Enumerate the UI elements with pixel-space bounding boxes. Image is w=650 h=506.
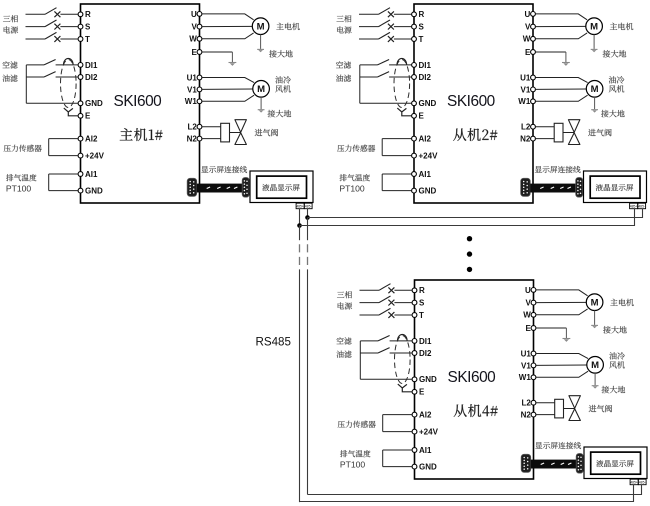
ground symbol fan motor (unit2) (591, 110, 598, 113)
wire pressure sensor bracket vertical (unit1) (48, 139, 50, 156)
wire L2 to valve coil (unit3) (536, 402, 555, 404)
svg-text:T: T (419, 35, 424, 44)
wire DI1 left segment (unit2) (360, 64, 378, 66)
svg-text:V: V (191, 23, 197, 32)
terminal pin GND (left, unit1) (78, 188, 83, 193)
valve body bowtie (unit3) (569, 396, 581, 421)
svg-text:U: U (525, 286, 531, 295)
wire PT100 to AI1 (unit3) (383, 449, 412, 451)
wire hump over DI1 (unit2) (397, 58, 407, 64)
label 接大地 earth (main motor, unit1) (269, 50, 293, 57)
wire RS485 stub from unit1 485+ terminal (299, 209, 301, 226)
wire V to main motor (unit3) (536, 301, 586, 303)
label 风机 fan (unit2) (609, 85, 624, 92)
svg-text:GND: GND (419, 375, 437, 384)
svg-text:AI1: AI1 (419, 446, 432, 455)
motor M1 main motor circle (unit2) (586, 18, 603, 35)
label 三相 three-phase (unit3) (337, 291, 352, 298)
switch blade DI2 (unit2) (378, 72, 390, 77)
label 排气温度 exhaust temperature (unit2) (340, 174, 370, 181)
wire DI2 left segment (unit1) (26, 76, 44, 78)
terminal pin V (right, unit3) (531, 300, 536, 305)
terminal pin S (left, unit3) (412, 300, 417, 305)
wire phase T to pin (unit2) (394, 38, 412, 40)
terminal pin GND (left, unit3) (412, 464, 417, 469)
wire RS485 stub to unit3 485- terminal (641, 485, 643, 495)
terminal pin +24V (left, unit1) (78, 153, 83, 158)
terminal pin L2 (right, unit1) (197, 124, 202, 129)
terminal pin +24V (left, unit3) (412, 429, 417, 434)
breaker contact X mark T (unit2) (388, 36, 394, 42)
wire phase R to pin (unit2) (394, 13, 412, 15)
label 主电机 main motor (unit3) (610, 299, 633, 306)
terminal pin E (right, unit2) (531, 50, 536, 55)
wire DI common return to GND pin (unit3) (360, 378, 412, 380)
terminal block 485+ (unit1) (296, 203, 304, 209)
svg-text:GND: GND (85, 187, 103, 196)
shield loop ellipse around DI wires (unit3) (395, 336, 411, 384)
wire RS485 stub to unit2 485- terminal (642, 209, 644, 218)
terminal pin T (left, unit1) (78, 37, 83, 42)
terminal pin W (right, unit3) (531, 312, 536, 317)
switch blade DI1 (unit3) (378, 336, 390, 341)
terminal pin N2 (right, unit3) (531, 412, 536, 417)
svg-text:U1: U1 (521, 349, 532, 358)
wire U1 to fan motor (unit3) (536, 354, 588, 359)
terminal pin GND (left, unit1) (78, 101, 83, 106)
wire hump over DI1 (unit3) (398, 334, 408, 340)
svg-text:SKI600: SKI600 (448, 369, 496, 386)
wire PT100 bracket vertical (unit3) (382, 450, 384, 467)
svg-text:GND: GND (419, 99, 437, 108)
wire U to main motor (unit2) (535, 14, 587, 20)
wire W1 to fan motor (unit2) (535, 95, 587, 101)
label unit name 主机1# (120, 128, 163, 141)
wire W to main motor (unit1) (202, 33, 254, 39)
terminal pin V1 (right, unit2) (531, 87, 536, 92)
label 压力传感器 pressure sensor (unit1) (4, 145, 42, 152)
terminal pin U (right, unit1) (197, 12, 202, 17)
display ribbon cable (unit3) (531, 460, 577, 469)
wire PT100 bracket vertical (unit2) (381, 174, 383, 191)
svg-text:485+: 485+ (296, 204, 304, 208)
label 油滤 oil filter (unit2) (336, 75, 351, 82)
label 油冷 oil cooling (unit1) (275, 76, 291, 83)
terminal pin T (left, unit2) (412, 37, 417, 42)
label 电源 power supply (unit3) (338, 302, 352, 309)
svg-text:T: T (85, 35, 90, 44)
wire DI1 to pin (unit3) (390, 340, 413, 342)
terminal pin R (left, unit3) (412, 288, 417, 293)
wire main motor to ground (unit2) (593, 35, 595, 49)
label 主电机 main motor (unit1) (276, 23, 299, 30)
svg-text:485+: 485+ (630, 204, 638, 208)
wire E output horizontal (unit3) (536, 327, 567, 329)
terminal pin V1 (right, unit1) (197, 87, 202, 92)
wire pressure sensor to +24V (unit3) (383, 431, 412, 433)
svg-text:S: S (85, 23, 91, 32)
wire phase T supply segment (unit1) (26, 38, 46, 40)
svg-text:485-: 485- (305, 204, 312, 208)
svg-text:R: R (85, 10, 91, 19)
wire main motor to ground (unit3) (594, 311, 596, 325)
valve body bowtie (unit2) (568, 120, 580, 145)
terminal pin DI2 (left, unit1) (78, 75, 83, 80)
LCD display inner screen (unit2) (590, 176, 640, 198)
ground symbol main motor (unit3) (591, 325, 598, 328)
label 空滤 air filter (unit3) (337, 337, 352, 344)
wire PT100 to GND (unit2) (382, 190, 411, 192)
wire main motor to ground (unit1) (260, 35, 262, 49)
breaker contact X mark S (unit1) (54, 24, 60, 30)
label 显示屏连接线 display cable (unit1) (201, 166, 247, 173)
junction dot node B (unit1 485-) (305, 215, 310, 220)
ellipsis dot 1 (more units) (467, 236, 472, 241)
label unit name 从机4# (454, 404, 498, 417)
wire PT100 to GND (unit3) (383, 466, 412, 468)
svg-text:U: U (191, 10, 197, 19)
terminal pin E (left, unit3) (412, 389, 417, 394)
ground symbol fan motor (unit3) (592, 386, 599, 389)
shield loop ellipse around DI wires (unit1) (61, 60, 77, 108)
wire W1 to fan motor (unit1) (202, 95, 254, 101)
display ribbon cable (unit2) (530, 184, 576, 193)
terminal pin W (right, unit1) (197, 36, 202, 41)
breaker switch blade R (unit1) (45, 8, 57, 15)
switch blade DI2 (unit1) (44, 72, 56, 77)
wire fan motor to ground (unit3) (594, 373, 596, 385)
svg-text:AI2: AI2 (419, 135, 432, 144)
svg-text:E: E (191, 48, 197, 57)
label unit name 从机2# (453, 128, 497, 141)
switch blade DI1 (unit2) (378, 60, 390, 65)
label 液晶显示屏 LCD screen (unit1) (262, 184, 299, 191)
wire RS485 vertical drop A dashed break (299, 244, 301, 265)
wire phase S supply segment (unit3) (360, 302, 380, 304)
svg-text:485-: 485- (639, 480, 646, 484)
terminal pin +24V (left, unit2) (412, 153, 417, 158)
wire RS485 stub to unit2 485+ terminal (634, 209, 636, 226)
terminal pin V (right, unit1) (197, 24, 202, 29)
LCD display outer box (unit2) (584, 171, 647, 203)
svg-text:S: S (419, 23, 425, 32)
terminal pin N2 (right, unit1) (197, 136, 202, 141)
svg-text:+24V: +24V (85, 152, 105, 161)
switch blade DI2 (unit3) (378, 348, 390, 353)
ellipsis dot 2 (more units) (467, 251, 472, 256)
wire DI2 to pin (unit1) (56, 76, 79, 78)
connector DB9 on drive (unit1) (187, 178, 197, 196)
connector DB9 on display (unit1) (242, 178, 249, 198)
svg-text:RS485: RS485 (256, 336, 291, 349)
wire phase R to pin (unit3) (394, 289, 412, 291)
terminal pin AI1 (left, unit1) (78, 172, 83, 177)
label 压力传感器 pressure sensor (unit3) (338, 421, 376, 428)
svg-text:GND: GND (419, 187, 437, 196)
terminal pin GND (left, unit3) (412, 377, 417, 382)
breaker contact X mark R (unit2) (388, 11, 394, 17)
svg-text:DI2: DI2 (419, 73, 432, 82)
svg-text:M: M (257, 84, 265, 95)
wire coil to valve body (unit2) (563, 132, 574, 134)
wire DI1 left segment (unit1) (26, 64, 44, 66)
wire pressure sensor bracket vertical (unit3) (382, 415, 384, 432)
ground symbol E output (unit2) (562, 63, 570, 66)
terminal pin S (left, unit2) (412, 24, 417, 29)
terminal pin AI2 (left, unit3) (412, 412, 417, 417)
motor M2 oil cooling fan circle (unit2) (586, 81, 603, 98)
wire V1 to fan motor (unit3) (536, 364, 587, 366)
breaker switch blade S (unit3) (379, 296, 391, 303)
breaker contact X mark S (unit2) (388, 24, 394, 30)
label 油滤 oil filter (unit3) (336, 351, 351, 358)
terminal pin U (right, unit3) (531, 288, 536, 293)
svg-text:GND: GND (419, 463, 437, 472)
terminal pin AI1 (left, unit2) (412, 172, 417, 177)
label 空滤 air filter (unit2) (336, 61, 351, 68)
wire W1 to fan motor (unit3) (536, 371, 588, 377)
label 液晶显示屏 LCD screen (unit3) (596, 460, 633, 467)
label 进气阀 intake valve (unit3) (589, 405, 612, 412)
wire DI2 to pin (unit2) (389, 76, 412, 78)
wire DI2 left segment (unit3) (360, 352, 378, 354)
svg-text:V: V (525, 299, 531, 308)
label 油冷 oil cooling (unit3) (609, 352, 625, 359)
ground symbol main motor (unit2) (591, 49, 598, 52)
svg-text:DI1: DI1 (85, 61, 98, 70)
breaker contact X mark R (unit1) (54, 11, 60, 17)
label 三相 three-phase (unit2) (337, 15, 352, 22)
terminal pin S (left, unit1) (78, 24, 83, 29)
terminal pin AI1 (left, unit3) (412, 448, 417, 453)
connector DB9 on drive (unit2) (521, 178, 531, 196)
wire E output horizontal (unit2) (535, 51, 566, 53)
label 接大地 earth (fan, unit3) (602, 386, 626, 393)
wire phase R to pin (unit1) (60, 13, 78, 15)
wire RS485 bus B to unit2 (lower) (300, 225, 635, 227)
svg-text:GND: GND (85, 99, 103, 108)
terminal pin DI1 (left, unit2) (412, 63, 417, 68)
wire U to main motor (unit3) (536, 290, 588, 296)
wire U1 to fan motor (unit2) (535, 78, 587, 83)
svg-text:S: S (419, 299, 425, 308)
terminal pin U1 (right, unit2) (531, 75, 536, 80)
wire coil to valve body (unit1) (230, 132, 241, 134)
terminal pin U (right, unit2) (531, 12, 536, 17)
terminal pin AI2 (left, unit2) (412, 136, 417, 141)
wire PT100 to AI1 (unit1) (49, 173, 78, 175)
svg-text:R: R (419, 286, 425, 295)
svg-text:U1: U1 (520, 73, 531, 82)
label 排气温度 exhaust temperature (unit1) (6, 174, 36, 181)
label 显示屏连接线 display cable (unit2) (535, 166, 581, 173)
valve coil box (unit2) (554, 123, 563, 142)
LCD display inner screen (unit1) (257, 176, 307, 198)
label 排气温度 exhaust temperature (unit3) (340, 450, 370, 457)
terminal pin DI1 (left, unit3) (412, 339, 417, 344)
shield drain Y connector (unit2) (397, 108, 411, 116)
wire W to main motor (unit3) (536, 309, 588, 315)
wire RS485 vertical drop B solid upper (307, 218, 309, 241)
wire phase S supply segment (unit2) (359, 26, 379, 28)
svg-text:W1: W1 (519, 373, 532, 382)
svg-text:E: E (525, 48, 531, 57)
valve coil box (unit1) (221, 123, 230, 142)
svg-text:E: E (85, 112, 91, 121)
inverter unit2 SKI600 drive main box (414, 4, 533, 203)
svg-text:DI2: DI2 (85, 73, 98, 82)
svg-text:DI1: DI1 (419, 61, 432, 70)
wire pressure sensor to AI2 (unit1) (49, 138, 78, 140)
wire N2 to valve coil (unit3) (536, 414, 555, 416)
terminal pin U1 (right, unit1) (197, 75, 202, 80)
svg-text:E: E (419, 112, 425, 121)
label 显示屏连接线 display cable (unit3) (535, 442, 581, 449)
svg-text:+24V: +24V (419, 152, 439, 161)
wire N2 to valve coil (unit2) (535, 138, 554, 140)
svg-text:V: V (525, 23, 531, 32)
wire V to main motor (unit1) (202, 25, 252, 27)
wire DI common return to GND pin (unit1) (26, 102, 78, 104)
label 主电机 main motor (unit2) (610, 23, 633, 30)
svg-text:M: M (590, 22, 598, 33)
wire W to main motor (unit2) (535, 33, 587, 39)
wire E output down (unit1) (231, 52, 233, 62)
svg-text:U: U (525, 10, 531, 19)
wire DI1 to pin (unit2) (389, 64, 412, 66)
LCD display inner screen (unit3) (591, 452, 641, 474)
label 油冷 oil cooling (unit2) (609, 76, 625, 83)
terminal pin DI2 (left, unit3) (412, 351, 417, 356)
wire phase S supply segment (unit1) (26, 26, 46, 28)
breaker switch blade S (unit2) (379, 20, 391, 27)
svg-text:SKI600: SKI600 (114, 93, 162, 110)
wire DI1 to pin (unit1) (56, 64, 79, 66)
wire PT100 to AI1 (unit2) (382, 173, 411, 175)
wire DI1 left segment (unit3) (360, 340, 378, 342)
svg-text:485-: 485- (638, 204, 645, 208)
terminal pin E (left, unit2) (412, 113, 417, 118)
wire L2 to valve coil (unit2) (535, 126, 554, 128)
label 接大地 earth (main motor, unit3) (603, 326, 627, 333)
wire coil to valve body (unit3) (564, 408, 575, 410)
wire phase S to pin (unit2) (394, 26, 412, 28)
svg-text:AI2: AI2 (419, 411, 432, 420)
svg-text:N2: N2 (521, 411, 532, 420)
wire U1 to fan motor (unit1) (202, 78, 254, 83)
wire phase S to pin (unit3) (394, 302, 412, 304)
motor M2 oil cooling fan circle (unit1) (253, 81, 270, 98)
svg-text:M: M (257, 22, 265, 33)
shield drain Y connector (unit1) (64, 108, 78, 116)
terminal block 485- (unit1) (304, 203, 312, 209)
wire PT100 bracket vertical (unit1) (48, 174, 50, 191)
wire DI common vertical (unit2) (359, 65, 361, 103)
label 油滤 oil filter (unit1) (2, 75, 17, 82)
wire N2 to valve coil (unit1) (202, 138, 221, 140)
svg-text:V1: V1 (187, 85, 197, 94)
breaker contact X mark S (unit3) (388, 300, 394, 306)
svg-text:V1: V1 (521, 85, 531, 94)
wire DI common vertical (unit1) (25, 65, 27, 103)
label 三相 three-phase (unit1) (3, 15, 18, 22)
LCD display outer box (unit1) (250, 171, 313, 203)
wire pressure sensor to AI2 (unit2) (382, 138, 411, 140)
label 接大地 earth (fan, unit1) (268, 110, 292, 117)
terminal block 485- (unit3) (638, 479, 646, 485)
shield loop ellipse around DI wires (unit2) (394, 60, 410, 108)
breaker contact X mark T (unit3) (388, 312, 394, 318)
terminal pin V (right, unit2) (531, 24, 536, 29)
terminal pin E (left, unit1) (78, 113, 83, 118)
svg-text:AI2: AI2 (85, 135, 98, 144)
wire RS485 vertical drop A solid lower (299, 269, 301, 502)
terminal pin DI1 (left, unit1) (78, 63, 83, 68)
wire hump over DI1 (unit1) (64, 58, 74, 64)
label 风机 fan (unit3) (609, 361, 624, 368)
svg-text:PT100: PT100 (6, 184, 32, 194)
svg-text:L2: L2 (521, 123, 531, 132)
svg-text:AI1: AI1 (419, 170, 432, 179)
wire phase T supply segment (unit2) (359, 38, 379, 40)
wire phase R supply segment (unit3) (360, 289, 380, 291)
svg-text:DI2: DI2 (419, 349, 432, 358)
terminal pin E (right, unit3) (531, 326, 536, 331)
wire RS485 stub to unit3 485+ terminal (633, 485, 635, 502)
wire pressure sensor to +24V (unit2) (382, 155, 411, 157)
svg-text:W: W (523, 311, 531, 320)
wire V1 to fan motor (unit1) (202, 88, 253, 90)
terminal pin W (right, unit2) (531, 36, 536, 41)
wire phase T to pin (unit1) (60, 38, 78, 40)
connector DB9 on display (unit2) (576, 178, 583, 198)
ground symbol E output (unit1) (229, 63, 237, 66)
svg-text:R: R (419, 10, 425, 19)
terminal pin GND (left, unit2) (412, 188, 417, 193)
terminal pin DI2 (left, unit2) (412, 75, 417, 80)
terminal pin L2 (right, unit3) (531, 400, 536, 405)
label 电源 power supply (unit1) (4, 26, 18, 33)
junction dot node A (unit1 485+) (297, 223, 302, 228)
breaker switch blade T (unit2) (379, 32, 391, 39)
svg-text:T: T (419, 311, 424, 320)
svg-text:485+: 485+ (630, 480, 638, 484)
label 接大地 earth (fan, unit2) (601, 110, 625, 117)
svg-text:AI1: AI1 (85, 170, 98, 179)
terminal pin GND (left, unit2) (412, 101, 417, 106)
wire phase R supply segment (unit1) (26, 13, 46, 15)
wire L2 to valve coil (unit1) (202, 126, 221, 128)
motor M1 main motor circle (unit1) (252, 18, 269, 35)
label 风机 fan (unit1) (275, 85, 290, 92)
wire phase R supply segment (unit2) (359, 13, 379, 15)
breaker switch blade S (unit1) (45, 20, 57, 27)
wire phase S to pin (unit1) (60, 26, 78, 28)
motor M2 oil cooling fan circle (unit3) (587, 357, 604, 374)
wire RS485 vertical drop B solid lower (307, 269, 309, 494)
wire E output horizontal (unit1) (202, 51, 233, 53)
svg-text:E: E (419, 388, 425, 397)
wire fan motor to ground (unit1) (260, 97, 262, 109)
wire U to main motor (unit1) (202, 14, 254, 20)
svg-text:E: E (525, 324, 531, 333)
svg-text:SKI600: SKI600 (447, 93, 495, 110)
breaker switch blade R (unit3) (379, 284, 391, 291)
label 进气阀 intake valve (unit2) (588, 129, 611, 136)
wire DI common vertical (unit3) (359, 341, 361, 379)
svg-text:+24V: +24V (419, 428, 439, 437)
label 接大地 earth (main motor, unit2) (603, 50, 627, 57)
